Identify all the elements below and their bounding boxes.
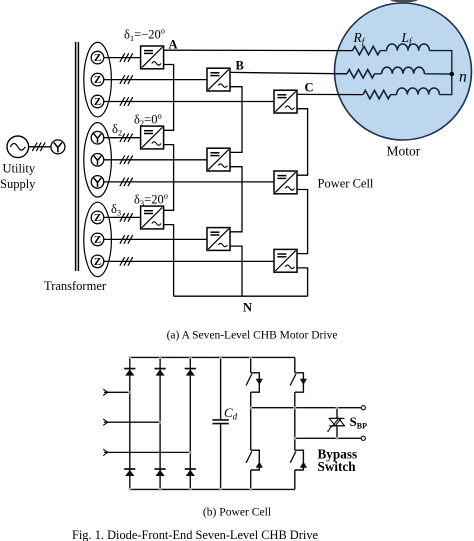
svg-text:Z: Z — [94, 212, 101, 224]
wire: phase A branch to star point — [429, 51, 451, 74]
output terminal 1 circle — [361, 406, 365, 410]
wire: cell B3 to neutral bus — [230, 246, 242, 296]
wire: winding to cell C3 — [104, 260, 274, 262]
wire: cell B2 to B3 series link — [230, 167, 242, 232]
wire: phase C line to motor — [297, 93, 363, 95]
diode D1 (top) — [124, 369, 135, 376]
wire: neutral bus N — [174, 295, 308, 297]
diode D5 (bottom) — [155, 469, 166, 476]
svg-text:Z: Z — [94, 96, 101, 108]
tick marks on wire to B3 — [120, 235, 133, 244]
resistor (phase B) — [347, 70, 375, 78]
label: Transformer — [44, 279, 107, 293]
winding 3.1 (Z) — [91, 211, 104, 224]
power cell C1 — [274, 90, 297, 113]
wire: cell C1 to C2 series link — [297, 109, 308, 176]
secondary winding group 2 (ellipse) — [84, 123, 112, 197]
wire: winding to cell C1 — [104, 101, 274, 103]
output terminal 2 circle — [361, 436, 365, 440]
tick marks on wire to C3 — [120, 257, 133, 266]
winding 2.3 (Y) — [91, 176, 104, 189]
node C label — [305, 81, 314, 95]
winding 2.2 (Y) — [91, 154, 104, 167]
diode D4 (bottom) — [124, 469, 135, 476]
wire: DC bus negative (bottom) — [130, 488, 295, 490]
node A label — [169, 38, 178, 52]
svg-text:(b) Power Cell: (b) Power Cell — [203, 506, 271, 519]
wire: rectifier leg 1 — [129, 357, 131, 489]
wire: H-bridge left leg — [250, 357, 252, 489]
diode D3 (top) — [185, 369, 196, 376]
inductor Lf (phase A) — [387, 44, 430, 51]
IGBT Q3 (right top) — [290, 373, 306, 392]
label Bypass Switch — [318, 447, 358, 475]
diode D2 (top) — [155, 369, 166, 376]
label Rf — [353, 30, 366, 47]
svg-text:Transformer: Transformer — [44, 279, 107, 293]
wire — [374, 73, 381, 75]
tick marks on wire to B1 — [120, 75, 133, 84]
wire: phase B line to motor — [230, 72, 347, 73]
wire: AC input c — [103, 449, 190, 455]
wire: phase C branch to star point — [439, 74, 451, 95]
wire: winding to cell B1 — [104, 79, 207, 81]
label Cd — [224, 405, 238, 422]
wire — [380, 50, 387, 52]
svg-text:Z: Z — [94, 74, 101, 86]
wire: phase B branch to star point — [424, 73, 451, 75]
caption (b) — [203, 506, 271, 519]
label delta1 = -20deg — [124, 26, 165, 44]
winding 1.2 (Z) — [91, 73, 104, 86]
label Power Cell — [318, 177, 374, 191]
wire: cell A3 to neutral bus — [164, 225, 174, 297]
wire: AC input b — [103, 419, 160, 425]
capacitor Cd — [212, 357, 228, 489]
label delta3 = 20deg — [134, 191, 168, 209]
tick marks on wire to B2 — [120, 156, 133, 165]
wire: source to wye — [29, 146, 52, 148]
label n — [459, 69, 467, 86]
power cell A2 — [141, 126, 164, 149]
label Motor — [387, 144, 421, 159]
tick marks on wire to C2 — [120, 178, 133, 187]
AC source (utility supply) — [7, 136, 29, 158]
wire: winding to cell C2 — [104, 181, 274, 183]
inductor (phase C) — [397, 88, 440, 95]
wire: DC bus positive (top) — [130, 356, 295, 358]
wire: cell A2 to A3 series link — [164, 145, 174, 211]
wire: output terminal 1 — [251, 407, 362, 409]
junction dots — [128, 356, 338, 491]
power cell B3 — [207, 228, 230, 251]
svg-text:δ3=20o: δ3=20o — [134, 191, 168, 209]
secondary winding group 1 (ellipse) — [84, 42, 112, 116]
winding 1.3 (Z) — [91, 95, 104, 108]
motor M1 (stator circle) — [335, 3, 472, 140]
3-phase tick marks on supply wire — [32, 143, 45, 152]
power cell A3 — [141, 206, 164, 229]
svg-text:Fig. 1. Diode-Front-End Seven-: Fig. 1. Diode-Front-End Seven-Level CHB … — [72, 528, 319, 541]
IGBT Q4 (right bottom) — [290, 450, 306, 470]
winding 2.1 (Y) — [91, 131, 104, 144]
node n (star point) — [450, 72, 455, 77]
svg-text:(a) A Seven-Level CHB Motor Dr: (a) A Seven-Level CHB Motor Drive — [167, 330, 338, 342]
svg-text:A: A — [169, 38, 178, 52]
tick marks on wire to A3 — [120, 213, 133, 222]
wire: winding to cell B3 — [104, 238, 207, 240]
caption (a) — [167, 330, 338, 342]
bypass switch SBP (anti-parallel thyristor pair) — [327, 408, 344, 439]
wire — [390, 94, 396, 96]
winding 3.2 (Z) — [91, 233, 104, 246]
label delta2 (winding) — [112, 122, 122, 138]
svg-text:Z: Z — [94, 52, 101, 64]
svg-text:n: n — [459, 69, 467, 86]
inductor (phase B) — [382, 67, 425, 74]
power cell C3 — [274, 249, 297, 272]
svg-text:Motor: Motor — [387, 144, 421, 159]
wire: rectifier leg 3 — [189, 357, 191, 489]
wire: cell C3 to neutral bus — [297, 268, 308, 296]
svg-text:Z: Z — [94, 256, 101, 268]
secondary winding group 3 (ellipse) — [84, 202, 112, 276]
svg-text:C: C — [305, 81, 314, 95]
figure caption — [72, 528, 319, 541]
wire: winding to cell B2 — [104, 159, 207, 161]
svg-text:B: B — [236, 59, 244, 73]
wye connection symbol — [51, 140, 65, 154]
power cell C2 — [274, 171, 297, 194]
label Lf — [401, 30, 414, 47]
wire: cell C2 to C3 series link — [297, 190, 308, 254]
diode D6 (bottom) — [185, 469, 196, 476]
label SBP — [350, 414, 368, 431]
power cell B2 — [207, 148, 230, 171]
wire: winding to cell A1 — [104, 57, 141, 59]
svg-text:Switch: Switch — [318, 459, 357, 474]
svg-text:Z: Z — [94, 234, 101, 246]
svg-text:Power Cell: Power Cell — [318, 177, 374, 191]
tick marks on wire to C1 — [120, 97, 133, 106]
resistor Rf (phase A) — [353, 46, 381, 54]
top edge artifact smudge — [391, 0, 418, 3]
svg-text:Utility: Utility — [3, 162, 36, 176]
winding 1.1 (Z) — [91, 51, 104, 64]
wire: winding to cell A2 — [104, 137, 141, 139]
IGBT Q1 (left top) — [246, 373, 262, 392]
wire: winding to cell A3 — [104, 216, 141, 218]
wire: H-bridge right leg — [294, 357, 296, 489]
tick marks on wire to A2 — [120, 133, 133, 142]
svg-text:Supply: Supply — [0, 177, 36, 191]
label: Utility Supply — [0, 162, 36, 192]
wire: phase A line to motor — [164, 49, 353, 51]
label delta2 = 0deg — [134, 111, 162, 129]
wire: cell A1 to A2 series link — [164, 65, 174, 131]
svg-text:N: N — [243, 301, 252, 315]
tick marks on wire to A1 — [120, 53, 133, 62]
wire: rectifier leg 2 — [159, 357, 161, 489]
winding 3.3 (Z) — [91, 255, 104, 268]
transformer core (double bar) — [76, 42, 79, 271]
IGBT Q2 (left bottom) — [246, 450, 262, 470]
power cell A1 — [141, 46, 164, 69]
label delta3 (winding) — [111, 202, 121, 218]
node B label — [236, 59, 244, 73]
resistor (phase C) — [363, 90, 391, 98]
wire: AC input a — [103, 389, 130, 395]
wire: cell B1 to B2 series link — [230, 87, 242, 153]
node N label — [243, 301, 252, 315]
wire: output terminal 2 — [295, 437, 361, 439]
power cell B1 — [207, 68, 230, 91]
